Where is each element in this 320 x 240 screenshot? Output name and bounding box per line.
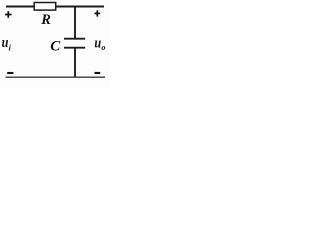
svg-text:u: u bbox=[2, 34, 9, 50]
svg-text:C: C bbox=[50, 39, 61, 55]
svg-text:R: R bbox=[40, 12, 51, 28]
svg-text:o: o bbox=[101, 43, 105, 52]
svg-text:u: u bbox=[94, 34, 101, 50]
